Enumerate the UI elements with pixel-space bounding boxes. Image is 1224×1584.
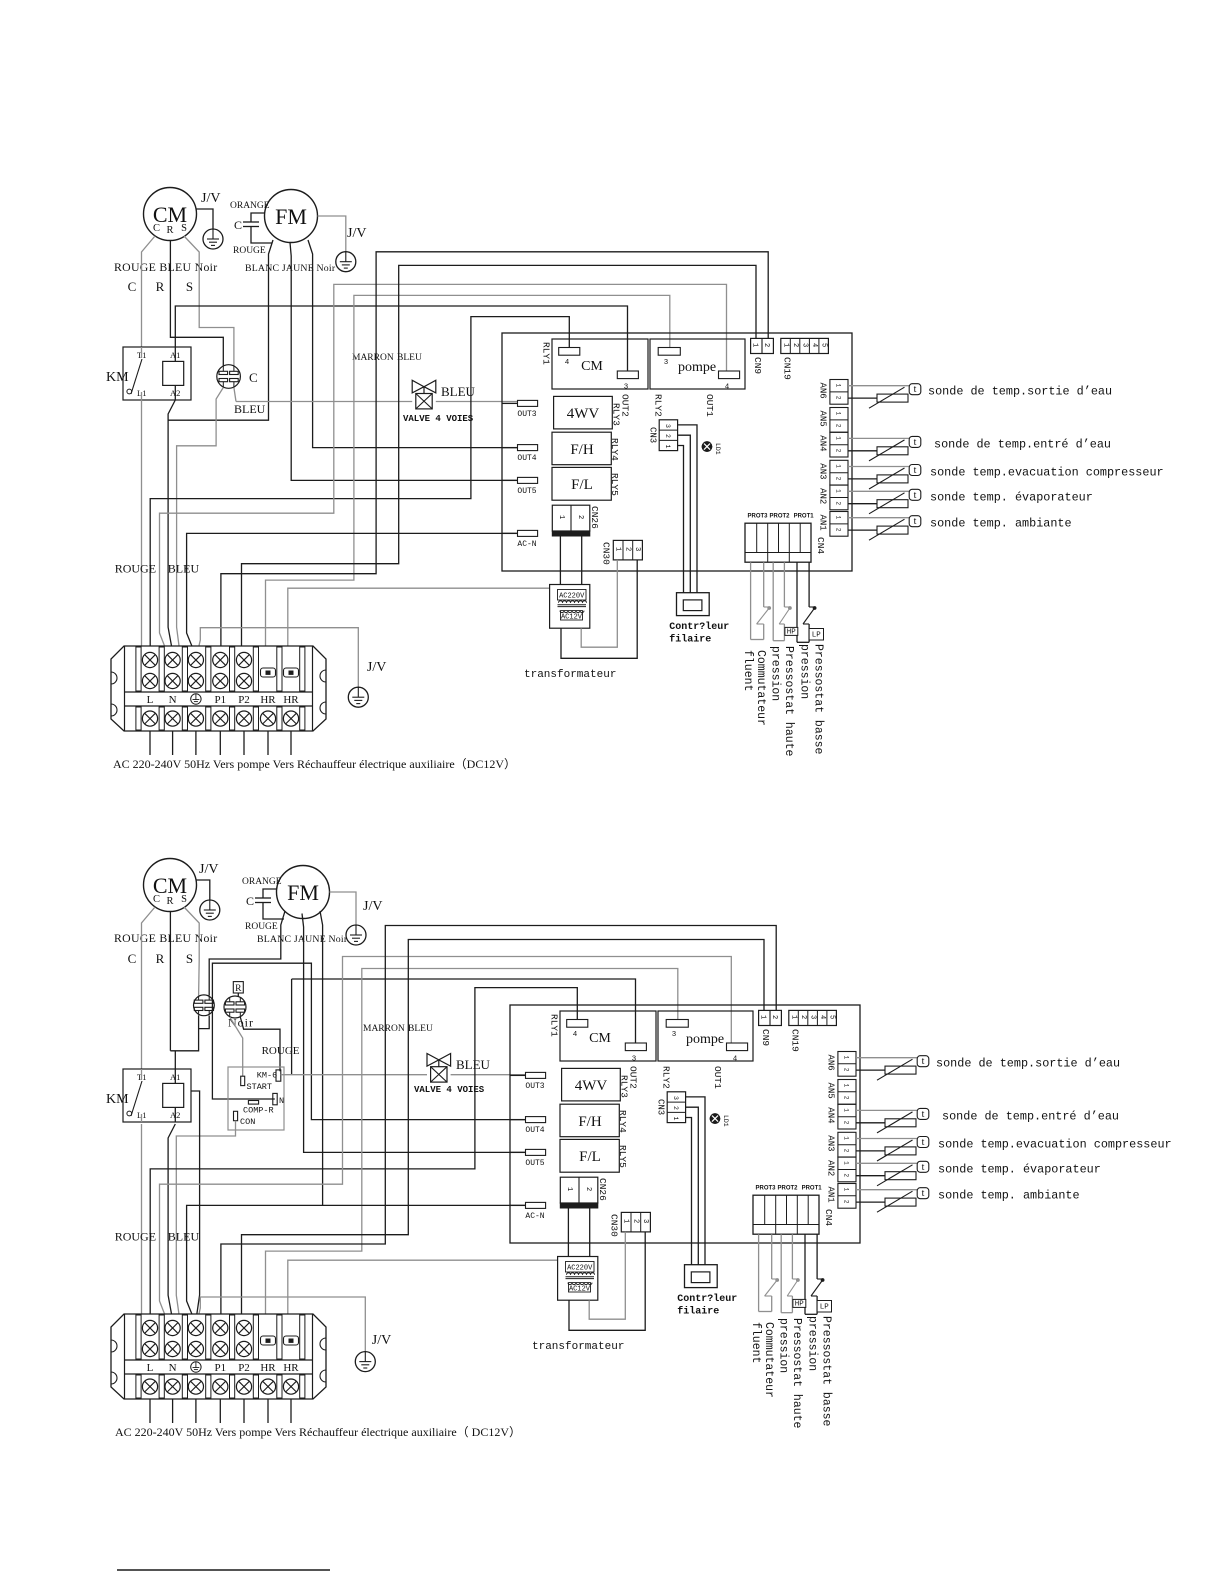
svg-text:J/V: J/V <box>201 191 220 206</box>
svg-text:3: 3 <box>624 384 629 392</box>
svg-text:S: S <box>181 223 187 234</box>
svg-text:ROUGE: ROUGE <box>115 562 156 576</box>
svg-text:R: R <box>166 225 173 236</box>
svg-text:4: 4 <box>818 1015 826 1019</box>
svg-text:BLEU: BLEU <box>456 1057 491 1072</box>
svg-text:CN9: CN9 <box>752 357 763 374</box>
svg-text:START: START <box>247 1082 273 1092</box>
svg-text:ROUGE: ROUGE <box>245 922 278 932</box>
svg-text:PROT3: PROT3 <box>747 514 768 520</box>
svg-text:N: N <box>169 694 177 706</box>
svg-text:2: 2 <box>762 343 770 347</box>
svg-text:PROT2: PROT2 <box>769 514 790 520</box>
svg-text:3: 3 <box>664 359 669 367</box>
svg-text:Commutateur: Commutateur <box>762 1322 775 1398</box>
svg-text:RLY4: RLY4 <box>609 438 620 461</box>
svg-text:sonde de temp.entré d’eau: sonde de temp.entré d’eau <box>934 437 1111 451</box>
svg-text:C: C <box>249 370 258 385</box>
svg-text:sonde de temp.sortie d’eau: sonde de temp.sortie d’eau <box>936 1057 1120 1071</box>
svg-text:LD1: LD1 <box>714 443 721 455</box>
svg-text:P1: P1 <box>214 1362 226 1374</box>
svg-text:4: 4 <box>733 1056 738 1064</box>
svg-text:AN3: AN3 <box>818 463 828 479</box>
svg-text:1: 1 <box>835 516 842 520</box>
svg-text:BLEU: BLEU <box>397 353 422 363</box>
svg-text:R: R <box>235 984 242 994</box>
svg-text:1: 1 <box>843 1188 850 1192</box>
svg-text:sonde temp. évaporateur: sonde temp. évaporateur <box>930 490 1093 504</box>
svg-text:RLY2: RLY2 <box>661 1066 672 1089</box>
svg-text:AN4: AN4 <box>818 435 828 451</box>
svg-text:CN3: CN3 <box>656 1099 666 1115</box>
svg-text:RLY5: RLY5 <box>617 1145 628 1168</box>
svg-text:fluent: fluent <box>741 650 754 691</box>
svg-text:2: 2 <box>664 434 671 438</box>
svg-text:AN5: AN5 <box>818 411 828 427</box>
svg-text:fluent: fluent <box>749 1322 762 1363</box>
svg-text:S: S <box>181 894 187 905</box>
svg-text:VALVE 4 VOIES: VALVE 4 VOIES <box>403 414 474 424</box>
svg-text:sonde de temp.entré d’eau: sonde de temp.entré d’eau <box>942 1109 1119 1123</box>
svg-text:RLY3: RLY3 <box>611 403 622 426</box>
svg-text:t: t <box>922 1188 925 1199</box>
svg-text:3: 3 <box>632 1056 637 1064</box>
svg-text:3: 3 <box>633 547 641 551</box>
svg-text:ROUGE: ROUGE <box>115 1230 156 1244</box>
svg-text:CN30: CN30 <box>609 1214 620 1237</box>
svg-text:sonde de temp.sortie d’eau: sonde de temp.sortie d’eau <box>928 385 1112 399</box>
svg-text:AC-N: AC-N <box>525 1212 544 1221</box>
svg-text:OUT1: OUT1 <box>704 394 715 417</box>
svg-text:Pressostat basse: Pressostat basse <box>820 1316 833 1427</box>
svg-text:1: 1 <box>835 412 842 416</box>
svg-text:1: 1 <box>835 489 842 493</box>
svg-text:1: 1 <box>782 343 790 347</box>
svg-text:RLY4: RLY4 <box>617 1110 628 1133</box>
svg-text:1: 1 <box>835 384 842 388</box>
svg-text:1: 1 <box>843 1108 850 1112</box>
svg-text:RLY5: RLY5 <box>609 473 620 496</box>
svg-text:Contr?leur: Contr?leur <box>669 621 729 633</box>
svg-text:2: 2 <box>631 1219 639 1223</box>
svg-text:2: 2 <box>835 477 842 481</box>
svg-text:pression: pression <box>769 646 782 701</box>
svg-text:AC 220-240V 50Hz Vers pompe Ve: AC 220-240V 50Hz Vers pompe Vers Réchauf… <box>113 757 516 771</box>
svg-text:1: 1 <box>664 445 671 449</box>
svg-text:AN1: AN1 <box>826 1187 836 1203</box>
svg-text:AC220V: AC220V <box>567 1265 593 1273</box>
svg-text:3: 3 <box>664 424 671 428</box>
svg-text:AN5: AN5 <box>826 1083 836 1099</box>
svg-text:1: 1 <box>790 1015 798 1019</box>
svg-text:1: 1 <box>565 1187 573 1191</box>
svg-text:AN6: AN6 <box>818 383 828 399</box>
svg-text:Pressostat haute: Pressostat haute <box>790 1318 803 1429</box>
svg-text:pompe: pompe <box>678 360 716 375</box>
svg-text:1: 1 <box>835 464 842 468</box>
svg-text:P1: P1 <box>214 694 226 706</box>
svg-text:2: 2 <box>835 449 842 453</box>
svg-text:2: 2 <box>835 424 842 428</box>
svg-text:3: 3 <box>809 1015 817 1019</box>
svg-text:AC220V: AC220V <box>559 593 585 601</box>
svg-text:CN26: CN26 <box>597 1178 608 1201</box>
svg-text:sonde temp. évaporateur: sonde temp. évaporateur <box>938 1162 1101 1176</box>
svg-text:HR: HR <box>260 694 276 706</box>
svg-text:FM: FM <box>275 204 307 229</box>
svg-text:sonde temp. ambiante: sonde temp. ambiante <box>938 1189 1080 1203</box>
svg-text:R: R <box>166 896 173 907</box>
svg-text:N: N <box>279 1096 284 1106</box>
svg-text:CN30: CN30 <box>601 542 612 565</box>
svg-text:BLANC JAUNE Noir: BLANC JAUNE Noir <box>257 934 348 945</box>
svg-text:AC12V: AC12V <box>569 1285 591 1293</box>
svg-text:L: L <box>147 694 154 706</box>
svg-text:t: t <box>914 384 917 395</box>
svg-text:pompe: pompe <box>686 1032 724 1047</box>
svg-text:KM-6: KM-6 <box>257 1071 277 1081</box>
svg-text:AN1: AN1 <box>818 515 828 531</box>
svg-text:2: 2 <box>799 1015 807 1019</box>
svg-text:2: 2 <box>843 1200 850 1204</box>
svg-text:1: 1 <box>843 1056 850 1060</box>
svg-text:3: 3 <box>801 343 809 347</box>
svg-text:pression: pression <box>777 1318 790 1373</box>
svg-text:2: 2 <box>843 1174 850 1178</box>
svg-text:VALVE 4 VOIES: VALVE 4 VOIES <box>414 1085 485 1095</box>
svg-text:filaire: filaire <box>677 1306 719 1318</box>
svg-text:P2: P2 <box>238 694 250 706</box>
svg-text:C: C <box>153 223 160 234</box>
svg-text:2: 2 <box>770 1015 778 1019</box>
svg-text:AC12V: AC12V <box>561 613 583 621</box>
svg-text:HP: HP <box>787 629 797 637</box>
svg-text:HR: HR <box>283 1362 299 1374</box>
svg-text:t: t <box>914 437 917 448</box>
svg-text:Pressostat basse: Pressostat basse <box>812 644 825 755</box>
svg-text:RLY1: RLY1 <box>541 342 552 365</box>
svg-text:sonde temp. ambiante: sonde temp. ambiante <box>930 517 1072 531</box>
svg-text:2: 2 <box>835 528 842 532</box>
svg-text:ORANGE: ORANGE <box>242 877 282 887</box>
svg-text:HR: HR <box>260 1362 276 1374</box>
svg-text:C: C <box>246 894 254 908</box>
svg-text:F/H: F/H <box>570 442 594 458</box>
svg-text:MARRON: MARRON <box>363 1024 405 1034</box>
svg-text:AC 220-240V 50Hz Vers pompe Ve: AC 220-240V 50Hz Vers pompe Vers Réchauf… <box>115 1425 521 1439</box>
svg-text:t: t <box>922 1162 925 1173</box>
svg-text:ROUGE: ROUGE <box>233 246 266 256</box>
svg-text:CN3: CN3 <box>648 427 658 443</box>
svg-text:t: t <box>922 1056 925 1067</box>
svg-text:Contr?leur: Contr?leur <box>677 1293 737 1305</box>
svg-text:4: 4 <box>810 343 818 347</box>
svg-text:transformateur: transformateur <box>532 1341 624 1353</box>
svg-text:C: C <box>153 894 160 905</box>
svg-text:S: S <box>186 279 193 294</box>
svg-text:CN26: CN26 <box>589 506 600 529</box>
svg-text:sonde temp.evacuation compress: sonde temp.evacuation compresseur <box>938 1138 1172 1152</box>
svg-text:COMP-R: COMP-R <box>243 1106 274 1116</box>
svg-text:filaire: filaire <box>669 634 711 646</box>
svg-text:Pressostat haute: Pressostat haute <box>782 646 795 757</box>
svg-text:C: C <box>234 218 242 232</box>
svg-text:J/V: J/V <box>199 862 218 877</box>
svg-text:LP: LP <box>812 632 822 640</box>
svg-text:1: 1 <box>843 1136 850 1140</box>
svg-text:LP: LP <box>820 1304 830 1312</box>
svg-text:AN4: AN4 <box>826 1107 836 1123</box>
svg-text:1: 1 <box>672 1117 679 1121</box>
svg-text:Commutateur: Commutateur <box>754 650 767 726</box>
svg-text:1: 1 <box>759 1015 767 1019</box>
svg-text:1: 1 <box>622 1219 630 1223</box>
svg-text:ORANGE: ORANGE <box>230 201 270 211</box>
svg-text:AN2: AN2 <box>818 488 828 504</box>
svg-text:1: 1 <box>843 1161 850 1165</box>
svg-text:BLEU: BLEU <box>234 402 266 416</box>
svg-text:OUT5: OUT5 <box>525 1159 544 1168</box>
svg-text:PROT2: PROT2 <box>777 1186 798 1192</box>
svg-text:F/L: F/L <box>571 477 593 493</box>
svg-text:2: 2 <box>584 1187 592 1191</box>
svg-text:KM: KM <box>106 1092 129 1107</box>
svg-text:R: R <box>156 951 165 966</box>
svg-text:4: 4 <box>565 359 570 367</box>
svg-text:3: 3 <box>641 1219 649 1223</box>
svg-text:2: 2 <box>835 502 842 506</box>
svg-text:AN3: AN3 <box>826 1135 836 1151</box>
svg-text:BLEU: BLEU <box>408 1024 433 1034</box>
svg-text:PROT3: PROT3 <box>755 1186 776 1192</box>
svg-text:CN19: CN19 <box>790 1029 801 1052</box>
svg-text:2: 2 <box>576 515 584 519</box>
svg-text:2: 2 <box>843 1149 850 1153</box>
svg-text:CN4: CN4 <box>823 1209 834 1226</box>
svg-text:4: 4 <box>725 384 730 392</box>
svg-text:CM: CM <box>589 1031 611 1046</box>
svg-text:t: t <box>922 1137 925 1148</box>
svg-text:BLEU: BLEU <box>168 562 200 576</box>
svg-text:pression: pression <box>806 1316 819 1371</box>
svg-text:CN19: CN19 <box>782 357 793 380</box>
svg-text:2: 2 <box>623 547 631 551</box>
svg-text:1: 1 <box>843 1084 850 1088</box>
svg-text:sonde temp.evacuation compress: sonde temp.evacuation compresseur <box>930 466 1164 480</box>
svg-text:BLEU: BLEU <box>168 1230 200 1244</box>
svg-text:3: 3 <box>672 1031 677 1039</box>
svg-text:OUT1: OUT1 <box>712 1066 723 1089</box>
svg-text:transformateur: transformateur <box>524 669 616 681</box>
svg-text:N: N <box>169 1362 177 1374</box>
svg-text:L: L <box>147 1362 154 1374</box>
svg-text:CN4: CN4 <box>815 537 826 554</box>
svg-text:ROUGE: ROUGE <box>262 1045 300 1057</box>
svg-text:OUT3: OUT3 <box>517 410 536 419</box>
svg-text:R: R <box>156 279 165 294</box>
svg-text:J/V: J/V <box>367 660 386 675</box>
svg-text:LD1: LD1 <box>722 1115 729 1127</box>
svg-text:J/V: J/V <box>372 1333 391 1348</box>
svg-text:AN6: AN6 <box>826 1055 836 1071</box>
svg-text:OUT3: OUT3 <box>525 1082 544 1091</box>
svg-text:HP: HP <box>795 1301 805 1309</box>
svg-text:4WV: 4WV <box>567 406 600 422</box>
svg-text:t: t <box>914 490 917 501</box>
svg-text:HR: HR <box>283 694 299 706</box>
svg-text:OUT4: OUT4 <box>525 1126 544 1135</box>
svg-text:CON: CON <box>240 1117 255 1127</box>
svg-text:RLY2: RLY2 <box>653 394 664 417</box>
svg-text:FM: FM <box>287 880 319 905</box>
svg-text:t: t <box>914 516 917 527</box>
svg-text:5: 5 <box>828 1015 836 1019</box>
svg-text:KM: KM <box>106 370 129 385</box>
svg-text:P2: P2 <box>238 1362 250 1374</box>
svg-text:1: 1 <box>751 343 759 347</box>
svg-text:CN9: CN9 <box>760 1029 771 1046</box>
svg-text:AN2: AN2 <box>826 1160 836 1176</box>
svg-text:2: 2 <box>835 396 842 400</box>
svg-text:S: S <box>186 951 193 966</box>
svg-text:5: 5 <box>820 343 828 347</box>
svg-text:1: 1 <box>614 547 622 551</box>
svg-text:C: C <box>128 279 137 294</box>
svg-text:F/H: F/H <box>578 1114 602 1130</box>
svg-text:2: 2 <box>843 1121 850 1125</box>
svg-text:BLANC JAUNE Noir: BLANC JAUNE Noir <box>245 263 336 274</box>
svg-text:OUT5: OUT5 <box>517 487 536 496</box>
svg-text:4: 4 <box>573 1031 578 1039</box>
svg-text:2: 2 <box>672 1106 679 1110</box>
svg-text:AC-N: AC-N <box>517 540 536 549</box>
svg-text:ROUGE BLEU Noir: ROUGE BLEU Noir <box>114 260 217 274</box>
svg-text:PROT1: PROT1 <box>802 1186 823 1192</box>
svg-text:2: 2 <box>843 1068 850 1072</box>
svg-text:RLY3: RLY3 <box>619 1075 630 1098</box>
svg-text:J/V: J/V <box>363 899 382 914</box>
svg-text:RLY1: RLY1 <box>549 1014 560 1037</box>
svg-text:2: 2 <box>791 343 799 347</box>
svg-text:C: C <box>128 951 137 966</box>
svg-text:1: 1 <box>557 515 565 519</box>
svg-text:4WV: 4WV <box>575 1078 608 1094</box>
svg-text:PROT1: PROT1 <box>794 514 815 520</box>
svg-text:pression: pression <box>798 644 811 699</box>
svg-text:1: 1 <box>835 436 842 440</box>
svg-text:J/V: J/V <box>347 226 366 241</box>
svg-text:CM: CM <box>581 359 603 374</box>
svg-text:3: 3 <box>672 1096 679 1100</box>
svg-text:ROUGE BLEU Noir: ROUGE BLEU Noir <box>114 931 217 945</box>
svg-text:t: t <box>914 465 917 476</box>
svg-text:2: 2 <box>843 1096 850 1100</box>
svg-text:F/L: F/L <box>579 1149 601 1165</box>
svg-text:MARRON: MARRON <box>352 353 394 363</box>
svg-text:OUT4: OUT4 <box>517 454 536 463</box>
svg-text:t: t <box>922 1109 925 1120</box>
